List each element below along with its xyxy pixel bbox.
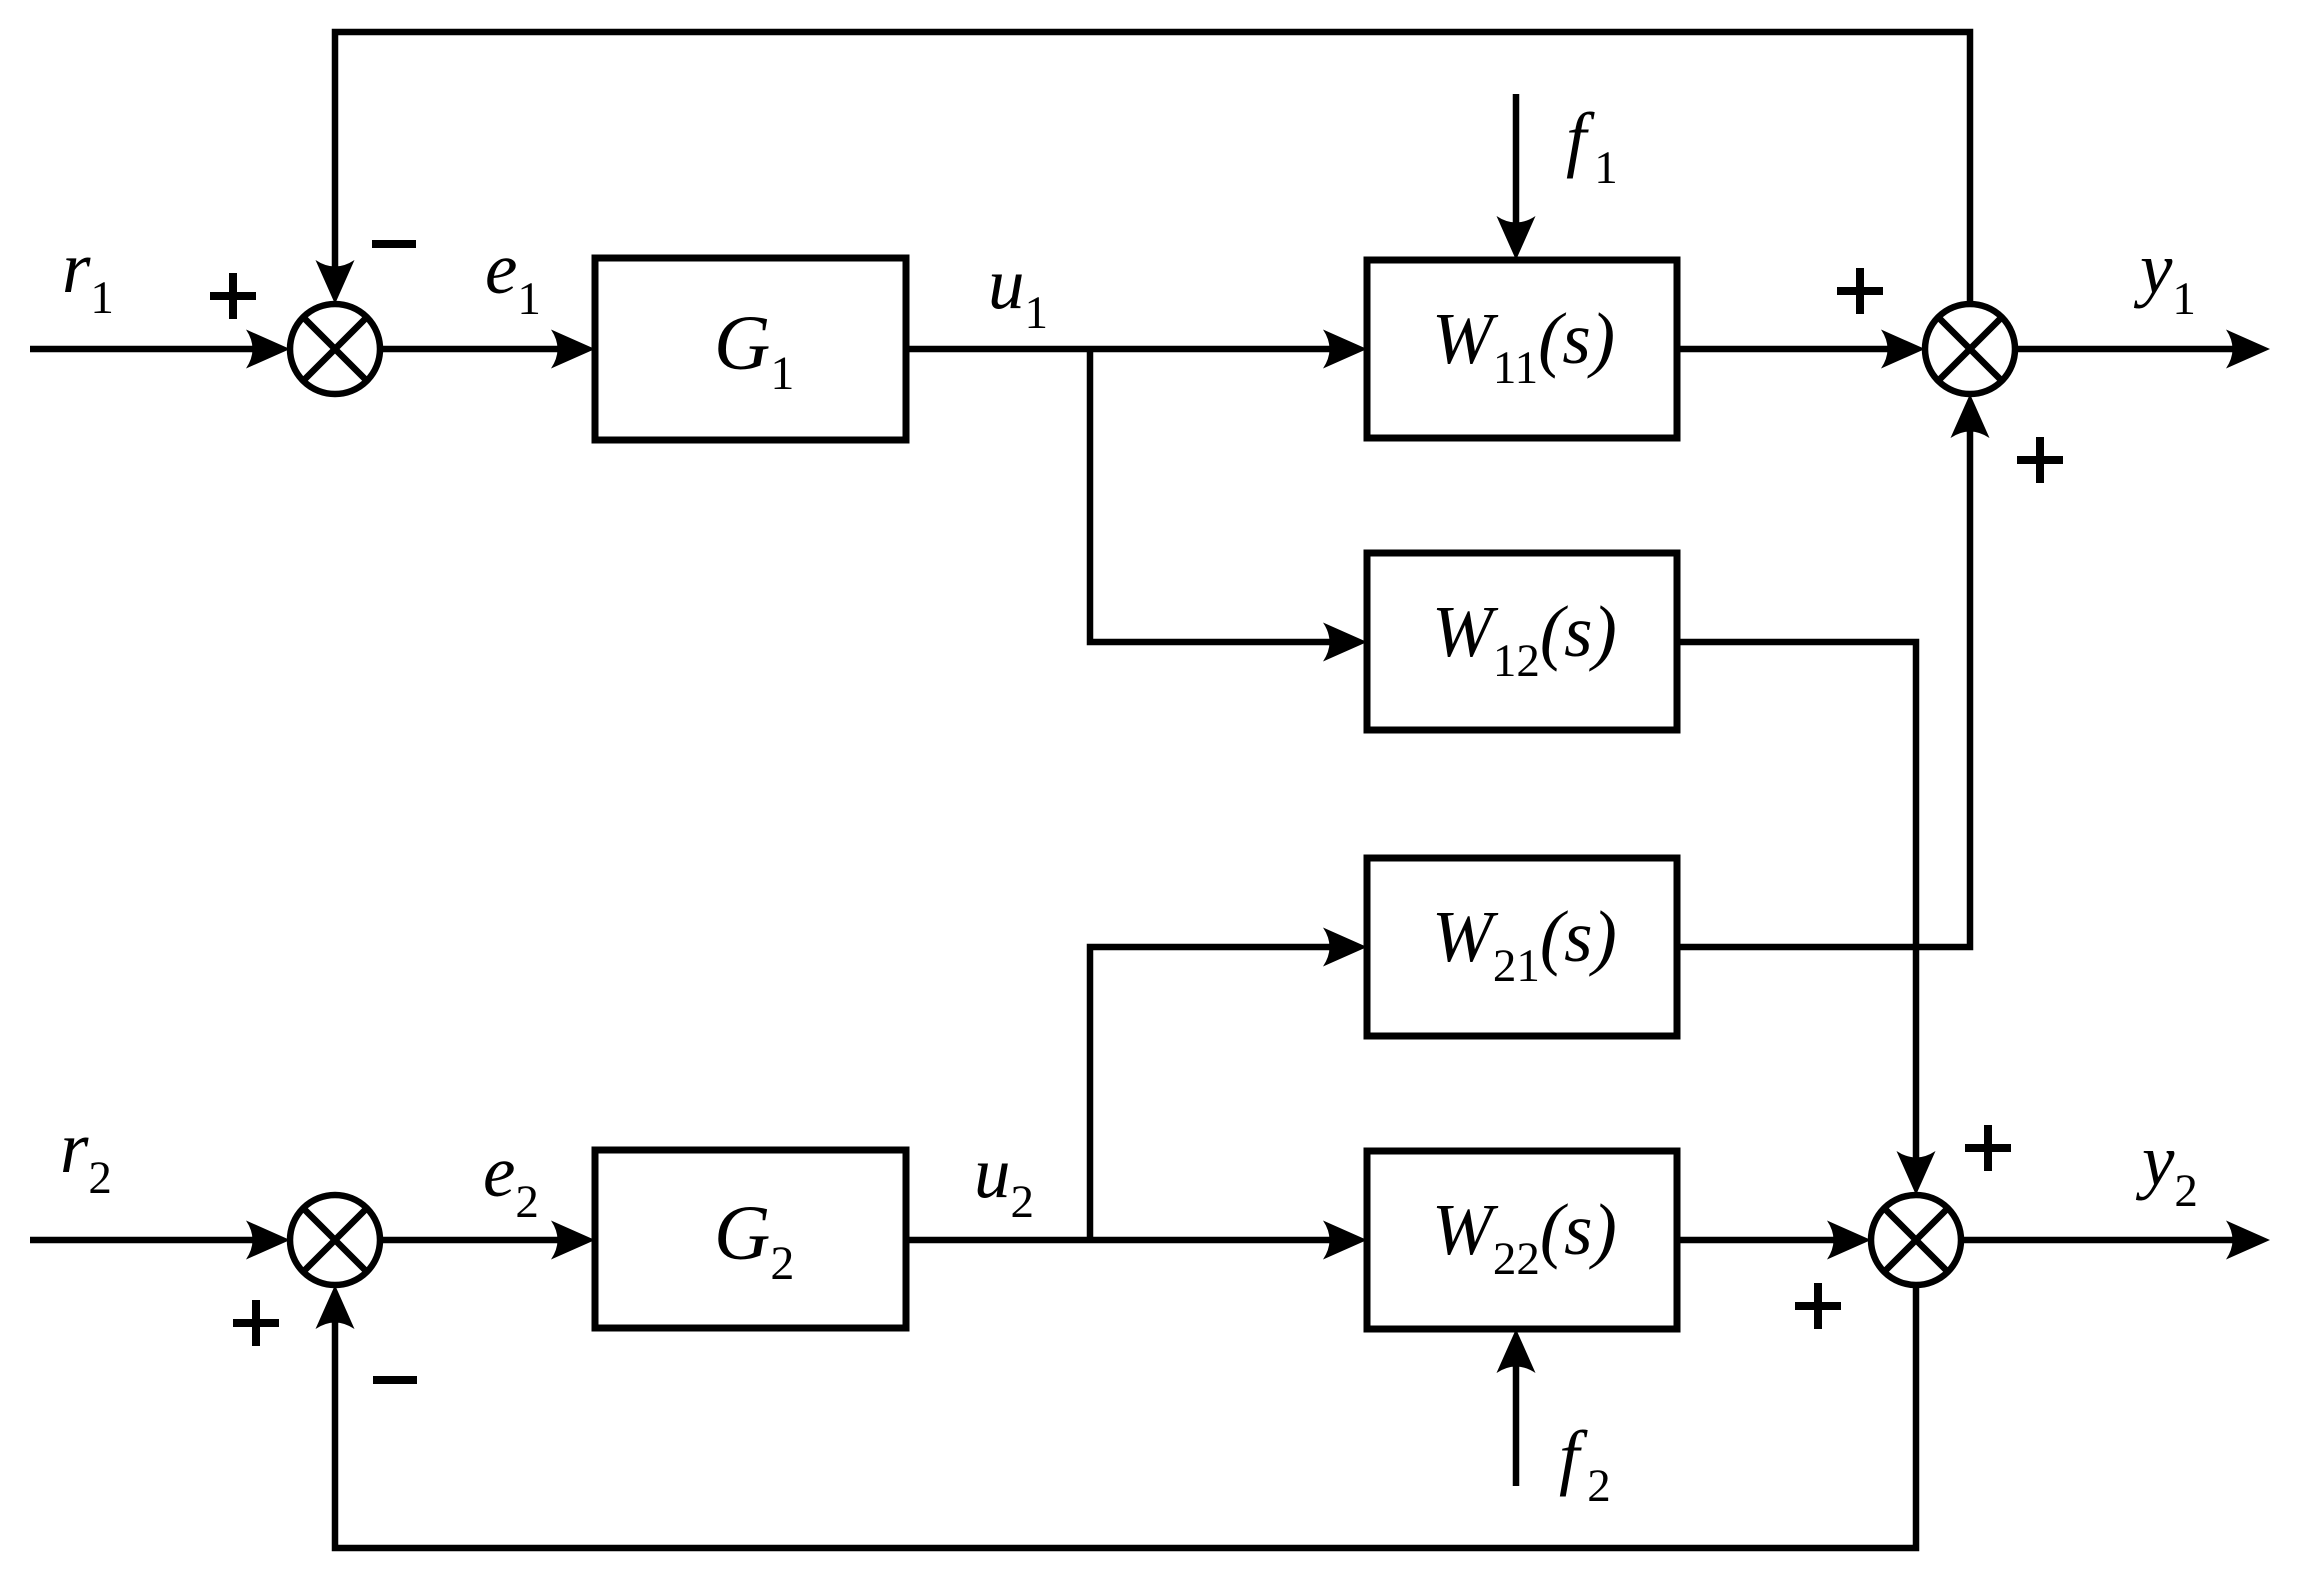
arrow up into Sy1 bottom [1951,394,1990,438]
minus sign at S1 top input [372,240,416,248]
arrow into Sy2 [1827,1221,1871,1260]
wire f2 riser [1513,1357,1520,1486]
arrow y2 output [2226,1221,2270,1260]
arrow into Sy1 [1881,330,1925,369]
summing junction Sy1 [1925,304,2015,394]
plus sign at S1 input [210,273,256,319]
arrow f2 into W22 bottom [1497,1329,1536,1373]
plus sign at Sy1 bottom input [2017,437,2063,483]
wire u2 branch up to W21 row [1090,947,1339,1240]
arrow into summing junction S1 [246,330,290,369]
arrow f1 into W11 top [1497,216,1536,260]
wire bottom feedback: Sy2 bottom down, left, up into S2 [335,1285,1916,1548]
wire W22 to Sy2 [1677,1237,1843,1244]
wire y1 output [2015,346,2242,353]
summing junction Sy2 [1871,1195,1961,1285]
wire S1 to G1 [380,346,567,353]
wire r1 input [30,346,262,353]
block W21 [1367,858,1677,1036]
summing junction S1 [290,304,380,394]
block G2 [595,1150,906,1328]
plus sign at Sy2 top input [1965,1125,2011,1171]
block G1 [595,258,906,440]
wire S2 to G2 [380,1237,567,1244]
wire u2: G2 to W22 with branch node [906,1237,1339,1244]
wire u1: G1 to W11 with branch node [906,346,1339,353]
minus sign at S2 bottom input [373,1376,417,1384]
arrow into W22 [1323,1221,1367,1260]
wire W12 output to Sy2 top [1677,642,1916,1167]
wire y2 output [1961,1237,2242,1244]
arrow into W11 [1323,330,1367,369]
wire u1 branch down to W12 row [1090,349,1339,642]
wire W11 to Sy1 [1677,346,1897,353]
block W11 [1367,260,1677,438]
block W22 [1367,1151,1677,1329]
arrow into G2 [551,1221,595,1260]
wire f1 drop [1513,94,1520,232]
arrow up into S2 bottom [316,1285,355,1329]
arrow down into Sy2 top [1897,1151,1936,1195]
summing junction S2 [290,1195,380,1285]
arrow into G1 [551,330,595,369]
plus sign at Sy2 left input [1795,1283,1841,1329]
plus sign at S2 input [233,1300,279,1346]
wire W21 output up to Sy1 bottom [1677,422,1970,947]
wire r2 input [30,1237,262,1244]
block W12 [1367,553,1677,730]
arrow into W21 [1323,928,1367,967]
arrow y1 output [2226,330,2270,369]
arrow into summing junction S2 [246,1221,290,1260]
wire top feedback: Sy1 top up, left, down into S1 [335,32,1970,304]
plus sign at Sy1 left input [1837,268,1883,314]
arrow down into S1 top [316,260,355,304]
arrow into W12 [1323,623,1367,662]
